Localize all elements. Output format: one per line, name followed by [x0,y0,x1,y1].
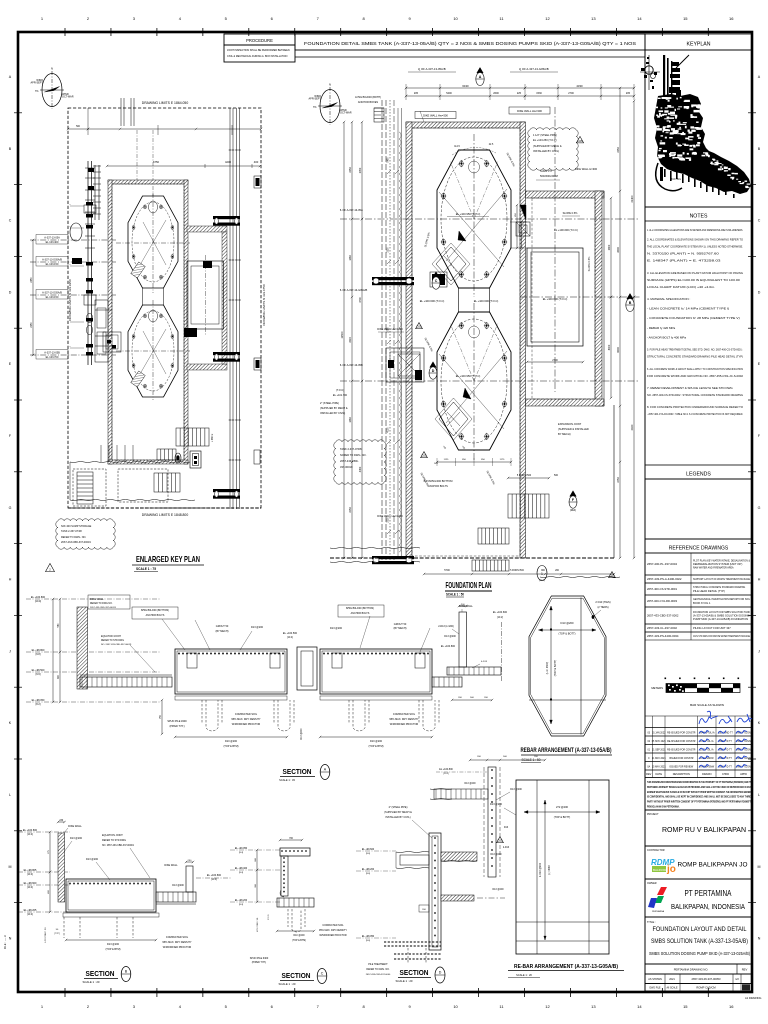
left outside dim lines of foundation plan [351,122,353,558]
svg-text:E. 148347 (PLANT) = E. 47: E. 148347 (PLANT) = E. 473258.03 [647,259,721,263]
svg-text:A-337-13-05A: A-337-13-05A [44,236,60,239]
svg-text:2. ALL COORDINATES & ELEVATIO: 2. ALL COORDINATES & ELEVATIONS SHOWN ON… [647,238,744,242]
svg-text:SCALE 1 : 20: SCALE 1 : 20 [396,979,413,983]
svg-text:2657-433-PS-4400-0034: 2657-433-PS-4400-0034 [647,634,679,638]
svg-text:DRAWING LIMITS N 333.9350: DRAWING LIMITS N 333.9350 [68,279,72,321]
svg-text:10: 10 [453,1004,458,1009]
svg-text:13: 13 [591,16,596,21]
svg-text:[10.4]: [10.4] [211,879,217,881]
svg-text:FOUNDATION LAYOUT FOR SMBS SOL: FOUNDATION LAYOUT FOR SMBS SOLUTION TANK [693,610,750,614]
svg-text:REV: REV [646,773,651,776]
svg-text:COMPACTED SOIL: COMPACTED SOIL [322,924,344,927]
svg-text:D13 @200: D13 @200 [70,837,83,840]
svg-text:400: 400 [254,160,259,164]
svg-text:D: D [432,369,435,373]
svg-text:6430: 6430 [462,84,469,88]
bar scale blocks [666,684,685,693]
svg-text:PILE TREATMENT: PILE TREATMENT [368,963,388,966]
svg-text:PENGOLAHAN DAN PETROKIMIA.: PENGOLAHAN DAN PETROKIMIA. [647,806,680,809]
svg-text:TIANSIA/SNW: TIANSIA/SNW [699,765,715,768]
svg-text:5400: 5400 [446,92,452,95]
svg-text:D13 @200: D13 @200 [492,889,504,891]
section B slab [66,879,156,912]
rebar rect dims [524,811,600,813]
svg-text:EL 103.700: EL 103.700 [46,356,59,359]
section A vertical dims far left [59,599,61,652]
keyplan map dense blob [640,55,751,198]
pipe lines left of plan [381,100,383,560]
svg-text:℄ OF A-337-13-05B: ℄ OF A-337-13-05B [339,363,363,367]
svg-text:10: 10 [453,16,458,21]
svg-text:G: G [758,506,761,510]
svg-text:DIKE WALL: DIKE WALL [68,824,82,828]
key plan left vertical dim [32,240,34,355]
svg-text:EL +99.600: EL +99.600 [362,848,375,851]
svg-text:95% MAX. DRY DENSITY: 95% MAX. DRY DENSITY [389,718,419,721]
svg-text:STRUCTURAL CONCRETE STANDARD D: STRUCTURAL CONCRETE STANDARD DRAWING PIL… [647,355,743,359]
sump dark triangles at tank wall [520,205,526,220]
svg-text:METERS: METERS [651,686,663,690]
rebar octagon inner structural lines [580,598,582,735]
svg-text:NJK 400 SUMP STORAGE: NJK 400 SUMP STORAGE [61,525,92,528]
right outside dim lines [619,88,621,558]
reference drawings table [645,553,752,575]
svg-text:EL +100.600 (T.O.C): EL +100.600 (T.O.C) [554,228,578,232]
section C base slab [277,898,314,907]
wind rose symbol [42,74,62,107]
svg-text:PERTAMINA ROSNEFT PENGOLAHAN D: PERTAMINA ROSNEFT PENGOLAHAN DAN PETROKI… [647,786,751,789]
svg-text:DRAWING LIMITS N 333.4750: DRAWING LIMITS N 333.4750 [262,284,266,326]
svg-text:B/50x/50L/000 (BOTTOM): B/50x/50L/000 (BOTTOM) [346,607,374,610]
svg-text:(TOP & BTM): (TOP & BTM) [292,940,306,942]
svg-text:D13 @200: D13 @200 [561,621,574,625]
section A slab 2 [320,649,432,694]
svg-text:[10.4]: [10.4] [27,887,33,889]
svg-text:D13 @200: D13 @200 [301,728,303,740]
svg-text:4-D13: 4-D13 [481,661,488,663]
svg-text:BIDY/YD TT: BIDY/YD TT [719,749,732,751]
svg-text:BIDY/YD TT: BIDY/YD TT [719,741,732,743]
svg-text:APR-SEPT: APR-SEPT [30,82,43,85]
key plan dashed pad bottom-left [73,469,106,506]
svg-text:4330: 4330 [576,84,583,88]
diamond detail octagon 1 [436,247,466,281]
procedure box [224,34,295,45]
svg-text:CIVIL & MECHANICAL DURING A. B: CIVIL & MECHANICAL DURING A. BOX INSTALL… [227,55,288,58]
disclaimer text [645,778,752,811]
section A slab 1 [175,649,287,694]
title block column border [644,34,646,991]
svg-text:[8.2]: [8.2] [36,703,41,706]
svg-text:EL 103.150: EL 103.150 [46,296,59,299]
key plan top piping stubs [120,98,122,126]
svg-text:L: L [9,793,11,797]
section A joint column [297,647,317,690]
svg-text:BIDY/OND TT: BIDY/OND TT [718,732,733,734]
foundation plan tank octagon 1 [437,150,511,288]
svg-text:PT PERTAMINA: PT PERTAMINA [685,889,733,898]
svg-text:REV: REV [742,968,748,972]
svg-text:DESCRIPTION: DESCRIPTION [673,773,690,776]
F marker [570,491,576,497]
svg-text:FOUNDATION DETAIL SMBS TANK (A: FOUNDATION DETAIL SMBS TANK (A-337-13-05… [304,41,636,46]
section A dike wall label [88,595,130,609]
pipe rack tick bundles [229,149,232,151]
svg-text:CONTRACTOR: CONTRACTOR [647,849,665,852]
svg-text:2657-433-PS-A-4400-0022: 2657-433-PS-A-4400-0022 [647,577,682,581]
key plan ladder strips bottom [77,472,93,504]
svg-text:3. ALL ELEVATION ARE BASED ON: 3. ALL ELEVATION ARE BASED ON PLANT DATU… [647,271,744,275]
svg-text:D25: D25 [578,139,583,143]
section B pedestal dashed [64,917,80,938]
svg-text:D13 @200: D13 @200 [464,783,476,785]
svg-text:(SUPPLIED & INSTALLED: (SUPPLIED & INSTALLED [558,427,589,431]
svg-text:LEGENDS: LEGENDS [686,472,711,478]
svg-text:A-337-13-G05A/B: A-337-13-G05A/B [42,291,62,294]
key plan pipe rack vertical lines right [229,108,231,509]
svg-text:EL +98.050: EL +98.050 [362,935,375,938]
svg-text:REFERENCE DRAWINGS: REFERENCE DRAWINGS [669,546,729,552]
svg-text:SCALE 1 : 50: SCALE 1 : 50 [446,593,464,597]
svg-text:DIKE WALL Hw=1200: DIKE WALL Hw=1200 [377,327,403,331]
label box bottom left [56,519,115,549]
svg-text:[9.8]: [9.8] [36,653,41,656]
foundation plan tank octagon 2 [437,312,511,450]
svg-text:D13 @200: D13 @200 [251,626,264,629]
key plan pump skid pit square [187,261,224,329]
key plan dark wall boxes [254,176,261,188]
svg-text:EL +100.800: EL +100.800 [439,768,453,771]
svg-text:26S7-433-CBD-337-00019: 26S7-433-CBD-337-00019 [61,541,91,544]
svg-text:W/MODIFIED PROCTOR: W/MODIFIED PROCTOR [163,946,192,949]
svg-text:PROCEDURE: PROCEDURE [246,38,273,43]
svg-text:(T.O.C): (T.O.C) [336,389,344,392]
svg-text:SLOPE 0.5%: SLOPE 0.5% [563,212,579,215]
svg-text:D10 @200: D10 @200 [225,740,238,743]
svg-text:[10.4]: [10.4] [27,834,33,836]
svg-text:W/MODIFIED PROCTOR: W/MODIFIED PROCTOR [232,723,261,726]
key plan tank octagon 1 [128,196,178,288]
svg-text:REFER TO STD DWG: REFER TO STD DWG [102,839,126,842]
svg-text:D25: D25 [498,839,503,843]
section B dike wall [58,821,65,823]
svg-text:TANK 2-337-07/08: TANK 2-337-07/08 [61,530,82,533]
section A extra leaders [195,620,210,650]
svg-text:A-337-13-05B: A-337-13-05B [44,351,60,354]
svg-text:NO. 2657-433-CBD-337-00019: NO. 2657-433-CBD-337-00019 [102,845,135,847]
dim row under octagon 2 [437,461,511,463]
svg-text:272 @200: 272 @200 [556,805,569,809]
svg-text:JOINT INSPECTION SHALL BE PERF: JOINT INSPECTION SHALL BE PERFORMED BETW… [227,49,290,52]
svg-text:(L) 4593: (L) 4593 [548,865,551,875]
svg-text:SLOPE 0.5%: SLOPE 0.5% [588,256,591,272]
svg-text:SECTION: SECTION [400,970,429,977]
svg-text:2700: 2700 [568,92,574,95]
svg-text:ENLARGED KEY PLAN: ENLARGED KEY PLAN [136,554,200,564]
section D right hatch pieces [441,852,477,861]
svg-text:OWNER: OWNER [647,882,657,885]
svg-text:℄ OF A-337-13-G05A/B: ℄ OF A-337-13-G05A/B [518,67,548,71]
rebar octagon horizontal dim arrow [539,629,597,631]
contractor box with RDMP JO logo [645,846,752,879]
svg-text:500x500x300M: 500x500x300M [540,174,558,178]
svg-text:RE-BAR ARRANGEMENT (A-337-13-G: RE-BAR ARRANGEMENT (A-337-13-G05A/B) [514,964,618,970]
rebar rect inner lines [536,780,538,954]
svg-text:[9.6]: [9.6] [366,940,371,942]
svg-text:(TOP & BOTT): (TOP & BOTT) [554,816,571,819]
svg-text:B/50x/50L/000 (BOTTOM): B/50x/50L/000 (BOTTOM) [141,609,169,612]
svg-text:EL +100.600 (T.O.C): EL +100.600 (T.O.C) [474,299,499,303]
svg-text:2657-433-CL-337-0002: 2657-433-CL-337-0002 [647,626,678,630]
svg-text:ROMP RU V BALIKPAPAN: ROMP RU V BALIKPAPAN [662,825,746,834]
svg-text:D: D [9,290,12,294]
svg-text:22.5: 22.5 [489,144,494,146]
svg-text:GROUT 50: GROUT 50 [216,625,229,628]
svg-text:L: L [758,793,760,797]
svg-text:EL +98.800: EL +98.800 [32,649,45,652]
key plan H-box pit [190,451,201,468]
svg-text:M: M [758,865,761,869]
svg-text:APPD: APPD [740,773,747,776]
svg-text:21 MAY 2021: 21 MAY 2021 [652,757,666,760]
svg-text:[9.6]: [9.6] [36,673,41,676]
svg-text:RAW WATER AND FIREWATER AREA: RAW WATER AND FIREWATER AREA [693,566,734,570]
svg-text:16: 16 [729,1004,734,1009]
svg-text:- CONCRETE FOUNDATION fc' 28 M: - CONCRETE FOUNDATION fc' 28 MPa (CEMENT… [647,316,740,320]
key plan left piping [87,161,89,365]
svg-text:KEYPLAN: KEYPLAN [687,42,711,48]
svg-text:EL +100.600 (T.O.C): EL +100.600 (T.O.C) [543,297,568,301]
svg-text:SCALE 1 : 50: SCALE 1 : 50 [522,758,541,762]
wavy break bottom left of plan [330,547,420,548]
svg-text:D13 @200: D13 @200 [444,635,456,638]
svg-text:A: A [479,75,482,79]
svg-text:JHAMS/YULI A: JHAMS/YULI A [699,731,715,734]
revision empty top row [645,716,752,728]
svg-text:(TOP & BTM): (TOP & BTM) [368,745,383,748]
svg-text:(SUPPLIED BY MECH &: (SUPPLIED BY MECH & [320,407,348,410]
svg-text:L 360 E: L 360 E [211,433,214,442]
svg-text:C: C [758,219,761,223]
svg-text:7. REBAR DEVELOPMENT & SPLICE: 7. REBAR DEVELOPMENT & SPLICE LENGTH SEE… [647,386,733,390]
dike wall labels top [415,112,456,119]
svg-text:A=50x/50x/000 (BOTH): A=50x/50x/000 (BOTH) [355,96,381,99]
section C top dim [280,839,302,841]
markers C and D on plan left [433,272,439,278]
svg-text:4100: 4100 [388,427,390,433]
svg-text:EL +100.800: EL +100.800 [23,829,38,832]
svg-text:D13 @200: D13 @200 [490,854,502,856]
svg-text:B: B [629,301,632,305]
svg-text:FOUNDATION LAYOUT AND DETAIL: FOUNDATION LAYOUT AND DETAIL [653,926,747,933]
svg-text:8000: 8000 [617,347,620,353]
svg-text:REFER TO DWG. NO.: REFER TO DWG. NO. [61,536,86,539]
bottom boundary of plan dashed [330,557,614,559]
svg-text:1 1/2" (STEEL PIPE): 1 1/2" (STEEL PIPE) [533,133,557,137]
svg-text:2250: 2250 [349,507,352,513]
svg-text:4450: 4450 [359,466,362,472]
svg-text:2657-400-PL-337-0004: 2657-400-PL-337-0004 [647,562,678,566]
svg-text:14: 14 [637,1004,642,1009]
svg-text:PILING LAYOUT FOR UNIT 337: PILING LAYOUT FOR UNIT 337 [693,626,731,630]
svg-text:DWG FILE: DWG FILE [649,988,661,990]
svg-text:N: N [9,937,12,941]
bottom dims of foundation plan [424,573,614,575]
svg-text:5. FOR PILE HEAD TREATMENT DE: 5. FOR PILE HEAD TREATMENT DETAIL SEE ST… [647,348,743,352]
key plan centreline stubs from dim row [136,130,138,182]
key plan second dashed pad [118,469,168,502]
svg-text:D13 @200: D13 @200 [172,884,184,887]
svg-text:FILE : ---- C: FILE : ---- C [3,935,7,949]
svg-text:1530: 1530 [536,92,542,95]
octagon2 radial spokes [450,323,474,381]
svg-text:05 NOV 2021: 05 NOV 2021 [652,741,667,743]
svg-text:BAR SCALE AS SHOWN: BAR SCALE AS SHOWN [690,703,724,707]
svg-text:4. MATERIAL SPECIFICATION :: 4. MATERIAL SPECIFICATION : [647,297,690,301]
svg-text:BOOK 8 VOL 1: BOOK 8 VOL 1 [693,601,711,605]
svg-text:N: N [51,67,53,71]
legends header [645,465,752,479]
svg-text:BIDY/YD TT: BIDY/YD TT [719,758,732,760]
key plan pump skid enclosure [187,226,227,232]
svg-text:SURFACE (HPPS) EL=100.00 IS EQ: SURFACE (HPPS) EL=100.00 IS EQUIVALENT T… [647,278,740,282]
svg-text:4200: 4200 [225,160,231,164]
svg-text:EL +98.600: EL +98.600 [24,882,37,885]
svg-text:C: C [9,219,12,223]
svg-text:(SUPPLIED BY MECH &: (SUPPLIED BY MECH & [384,811,412,814]
svg-text:6. ALL CONCRETE WORK & GROUT: 6. ALL CONCRETE WORK & GROUT SHALL APPLY… [647,367,743,371]
pump skid labels top [528,128,578,170]
svg-text:6750: 6750 [153,160,159,164]
svg-text:2800: 2800 [617,247,620,253]
svg-text:GEOTECHNICAL INVESTIGATION REP: GEOTECHNICAL INVESTIGATION REPORT FOR SO… [693,597,750,601]
svg-text:[9.4]: [9.4] [239,872,244,874]
svg-text:2021: 2021 [669,978,675,981]
svg-text:OCT-MAR: OCT-MAR [340,112,352,115]
ladder top left of plan [374,108,384,122]
bottom stairs of foundation plan [508,494,549,518]
svg-text:24X0: 24X0 [631,424,634,430]
keyplan header [645,34,752,50]
svg-text:EL 103.400: EL 103.400 [46,241,59,244]
svg-text:2" (STEEL PIPE): 2" (STEEL PIPE) [320,402,339,405]
svg-text:2250: 2250 [31,322,33,328]
key plan equipment dots [100,445,102,462]
svg-text:95% MAX. DRY DENSITY: 95% MAX. DRY DENSITY [231,718,261,721]
svg-text:[9.4]: [9.4] [239,852,244,854]
svg-text:CHKD: CHKD [722,773,729,776]
svg-text:SECTION: SECTION [283,769,312,776]
svg-text:2 D13 (TIES): 2 D13 (TIES) [595,600,610,604]
svg-text:(L.R. 4500): (L.R. 4500) [546,662,549,675]
svg-text:2350: 2350 [359,167,362,173]
svg-text:℄ OF A-337-13-G05A/B: ℄ OF A-337-13-G05A/B [339,288,367,292]
svg-text:GROUT 50: GROUT 50 [394,623,407,626]
svg-text:2-D13 (L=200): 2-D13 (L=200) [438,625,454,628]
pipe rack support bars [213,216,240,219]
rebar arrangement octagon [529,596,606,736]
svg-text:N: N [329,83,331,87]
svg-text:5 RODS=500: 5 RODS=500 [517,474,532,477]
svg-text:SCALE 1 : 75: SCALE 1 : 75 [136,567,156,571]
svg-text:SECTION: SECTION [86,971,115,978]
svg-text:INSTALLED BY CIVIL): INSTALLED BY CIVIL) [320,412,345,415]
svg-text:AS SHOWN: AS SHOWN [648,978,662,981]
svg-text:J: J [758,649,760,653]
svg-text:4700: 4700 [359,297,362,303]
dim line bottom of key plan [68,507,261,509]
svg-text:AII SCALE: AII SCALE [667,987,678,990]
svg-text:(BY MECH): (BY MECH) [393,627,406,630]
keyplan map area [645,50,752,207]
svg-text:- ANCHOR BOLT fy 400 MPa: - ANCHOR BOLT fy 400 MPa [647,335,686,339]
svg-text:2350: 2350 [349,167,352,173]
svg-text:PUMP SKID (A-337-13-G05A/B) FO: PUMP SKID (A-337-13-G05A/B) FOUNDATION [693,617,748,621]
svg-text:2657-433-CBD-337-0040: 2657-433-CBD-337-0040 [366,974,391,976]
foundation plan neck between octagons [458,288,460,312]
svg-text:2657-433-CBD-337-00019: 2657-433-CBD-337-00019 [90,607,117,609]
svg-text:D13 @200: D13 @200 [107,943,120,946]
svg-text:DIKE WALL: DIKE WALL [164,864,178,867]
legends empty box [645,479,752,539]
svg-text:2" (STEEL PIPE): 2" (STEEL PIPE) [389,806,408,809]
svg-text:[10.2]: [10.2] [497,617,503,619]
svg-text:SCALE 1 : 33: SCALE 1 : 33 [279,778,295,782]
svg-text:(PIPED TYP.): (PIPED TYP.) [252,961,267,964]
svg-text:℄ OF A-337-13-05A/B: ℄ OF A-337-13-05A/B [417,67,445,71]
svg-text:TAO JNG: TAO JNG [671,178,681,181]
svg-text:DIKE WALL Hw=300: DIKE WALL Hw=300 [517,109,542,113]
svg-text:(TOP & BOTT): (TOP & BOTT) [554,660,557,677]
svg-text:[10.2]: [10.2] [443,773,449,775]
svg-text:EL +98.400: EL +98.400 [235,867,248,870]
svg-text:26S7-433-CBD-: 26S7-433-CBD- [340,459,359,463]
svg-text:12500: 12500 [341,331,344,339]
key plan small box right boundary [254,450,260,464]
svg-text:PARTY WITHOUT PRIOR WRITTEN CO: PARTY WITHOUT PRIOR WRITTEN CONSENT OF P… [647,801,751,804]
slope arrow black oct1 [458,231,466,241]
rebar octagon vertical dim arrow [550,606,552,724]
svg-text:LCV CONC. 50: LCV CONC. 50 [257,917,259,932]
svg-text:ISSUED FOR CONSTR: ISSUED FOR CONSTR [669,758,694,760]
svg-text:FOR CONCRETE WORK AND GROUTING: FOR CONCRETE WORK AND GROUTING NO. 2657-… [647,374,743,378]
svg-text:(BY MECH): (BY MECH) [215,630,228,633]
bar scale [665,678,667,680]
svg-text:PROJECT: PROJECT [647,813,659,816]
svg-text:FOUNDATION PLAN: FOUNDATION PLAN [446,580,492,590]
svg-text:NOTES: NOTES [690,214,708,220]
svg-text:W/MODIFIED PROCTOR: W/MODIFIED PROCTOR [319,934,346,937]
svg-text:EL +100.500: EL +100.500 [283,632,298,635]
svg-text:(REF): (REF) [539,580,545,582]
svg-text:D: D [758,290,761,294]
svg-text:EL +99.050: EL +99.050 [235,847,248,850]
svg-text:5700: 5700 [444,569,450,572]
svg-text:EL +98.200: EL +98.200 [235,899,248,902]
svg-text:EL +100.600: EL +100.600 [493,611,508,614]
top dimension line of key plan [88,128,261,130]
svg-text:D13 @200: D13 @200 [490,803,503,806]
svg-text:225: 225 [517,92,522,95]
svg-text:STRUCTURAL CONCRETE STANDARD D: STRUCTURAL CONCRETE STANDARD DRAWING [693,585,745,589]
svg-text:TANK 2-337-07/08: TANK 2-337-07/08 [340,447,362,451]
svg-text:95% MAX. DRY DENSITY: 95% MAX. DRY DENSITY [162,941,192,944]
svg-text:BIDY/YD TT: BIDY/YD TT [719,766,732,768]
left piping small valves [86,202,93,206]
svg-text:1880: 1880 [349,255,352,261]
svg-text:W/MODIFIED PROCTOR: W/MODIFIED PROCTOR [390,723,419,726]
svg-text:EL +98.050: EL +98.050 [32,699,45,702]
